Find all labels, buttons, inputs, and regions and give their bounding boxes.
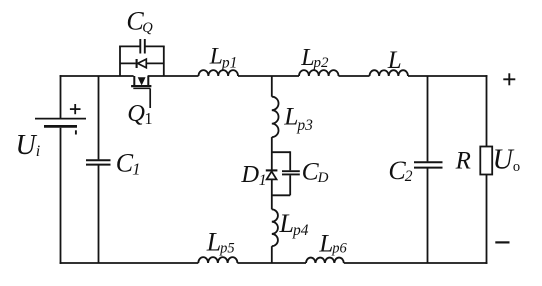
wire C2 branch upper <box>427 76 429 161</box>
wire left branch lower <box>60 128 62 264</box>
output plus sign <box>503 73 515 85</box>
svg-text:L: L <box>387 47 402 74</box>
wire bottom rail left segment <box>60 262 199 264</box>
wire middle branch D1 to Lp4 <box>271 179 273 209</box>
wire snubber rect top edge <box>119 45 165 47</box>
wire top rail left segment <box>60 75 134 77</box>
capacitor C2 <box>414 162 443 167</box>
output minus sign <box>495 241 509 243</box>
wire top rail segment Lp2 to L <box>339 75 370 77</box>
wire top rail segment between Q1 and Lp1 <box>148 75 199 77</box>
inductor Lp3 <box>272 97 279 137</box>
wire CD loop right lower <box>289 175 291 195</box>
capacitor CQ <box>140 39 145 54</box>
wire C2 branch lower <box>427 169 429 264</box>
transistor Q1 <box>131 76 151 108</box>
inductor Lp4 <box>272 209 278 246</box>
diode snubber triangle <box>138 59 147 68</box>
diode snubber bar <box>136 59 138 68</box>
svg-text:R: R <box>455 148 471 175</box>
wire right branch lower <box>486 175 488 264</box>
diode D1 bar <box>266 169 278 171</box>
wire middle branch Lp3 to D1 <box>271 137 273 169</box>
inductor Lp5 <box>198 257 237 263</box>
battery Ui top plate <box>35 118 86 120</box>
wire snubber diode branch <box>120 62 164 64</box>
wire snubber rect left edge <box>119 46 121 76</box>
battery minus tick <box>75 130 77 134</box>
wire middle branch upper <box>271 76 273 97</box>
capacitor CD <box>282 171 300 174</box>
inductor Lp6 <box>306 258 344 263</box>
wire snubber rect right edge <box>163 46 165 76</box>
wire CD loop top <box>272 151 290 153</box>
wire right branch upper <box>486 75 488 146</box>
wire left branch upper <box>60 75 62 118</box>
wire CD loop bottom <box>272 194 290 196</box>
resistor R <box>480 147 492 175</box>
battery plus sign <box>70 104 81 114</box>
wire top rail right segment <box>408 75 487 77</box>
wire bottom rail right segment <box>344 262 488 264</box>
capacitor C1 <box>86 160 111 164</box>
wire CD loop right upper <box>289 151 291 170</box>
inductor Lp2 <box>299 70 339 76</box>
inductor Lp1 <box>199 70 239 76</box>
battery Ui bottom plate <box>44 125 77 128</box>
diode D1 triangle <box>267 171 277 179</box>
wire top rail segment Lp1 to Lp2 <box>238 75 299 77</box>
wire middle branch lower <box>271 246 273 263</box>
wire C1 branch upper <box>98 76 100 159</box>
inductor L <box>370 70 408 76</box>
wire C1 branch lower <box>98 166 100 264</box>
wire bottom rail middle segment <box>237 262 306 264</box>
